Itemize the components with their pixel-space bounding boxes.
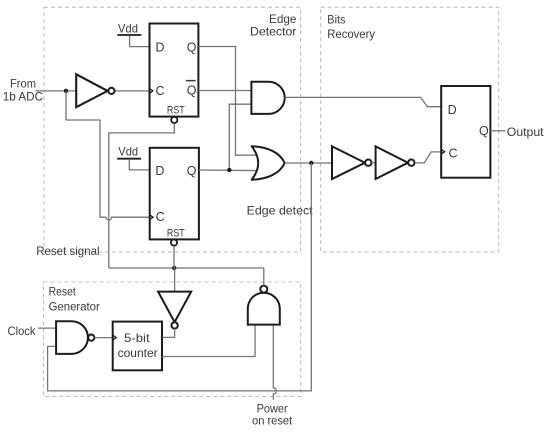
svg-text:Q: Q [479, 124, 489, 138]
label From 1b ADC [3, 77, 44, 104]
flip-flop U2 (FF1) [150, 24, 199, 124]
wire: input branch down to FF2 C (with hop over reset wire) [66, 91, 150, 220]
wire: Vdd to FF1 D [130, 36, 150, 47]
node: junction dot on FF2 Q wire [227, 168, 231, 172]
node: input junction dot [64, 89, 68, 93]
svg-text:D: D [448, 103, 457, 117]
svg-text:Recovery: Recovery [327, 27, 375, 41]
node: edge detect junction dot [309, 161, 313, 165]
wire: FF4 Q to Output [490, 130, 505, 132]
svg-text:C: C [449, 146, 458, 160]
svg-text:on reset: on reset [252, 414, 293, 428]
wire: AND output to FF4 D (diagonal jog) [285, 97, 442, 106]
wire: Clock input to NAND U10 [38, 327, 56, 329]
wire: FF2 Q to OR gate bottom input [199, 169, 256, 172]
wire: counter output to NAND U12 input [162, 325, 255, 357]
label Bits Recovery [327, 13, 375, 41]
region box: Edge Detector [44, 7, 301, 252]
svg-text:5-bit: 5-bit [124, 331, 150, 345]
wire: U8 output to counter reset [162, 329, 174, 338]
svg-text:Q: Q [187, 41, 197, 55]
svg-text:Vdd: Vdd [118, 21, 138, 35]
svg-text:D: D [156, 41, 165, 55]
svg-text:Output: Output [507, 125, 544, 139]
and gate U4 [251, 82, 284, 114]
wire: Vdd to FF2 D [129, 160, 149, 170]
wire: FF1 Q to OR gate top input [198, 47, 256, 156]
svg-text:counter: counter [118, 346, 158, 360]
svg-text:Detector: Detector [250, 25, 296, 39]
wire: FF1 RST to reset rail [109, 124, 175, 268]
region box: Reset Generator [44, 282, 301, 396]
label Reset Generator [49, 285, 100, 314]
node: reset rail junction dot [172, 266, 176, 270]
power symbol Vdd (FF1) [117, 21, 141, 35]
wire: U6 to U7 [372, 162, 376, 164]
region box: Bits Recovery [321, 7, 499, 252]
wire: reset rail horizontal [109, 267, 264, 269]
svg-text:RST: RST [167, 228, 185, 240]
inverter U1 [76, 74, 114, 107]
wire: U1 output to FF1 C [115, 90, 150, 92]
wire: reset rail down to inverter U8 input [174, 268, 176, 292]
label Edge Detector [250, 12, 297, 39]
svg-text:RST: RST [167, 104, 185, 116]
nand gate U10 (clock) [56, 321, 94, 354]
flip-flop U9 (output FF) [441, 86, 490, 178]
wire: U7 output to FF4 C (diagonal jog) [415, 152, 442, 163]
svg-text:C: C [156, 84, 165, 98]
inverter U8 (pointing down) [158, 292, 191, 329]
nand gate U12 (power on reset, pointing up) [248, 286, 280, 325]
counter U11 (5-bit counter) [113, 322, 162, 371]
wire: power-on-reset input (with hop over feedback wire) [273, 325, 276, 400]
svg-text:Generator: Generator [49, 300, 100, 314]
wire: reset rail up to FF2 RST bubble [173, 246, 175, 268]
or gate U5 [252, 146, 285, 179]
power symbol Vdd (FF2) [117, 144, 141, 158]
svg-text:D: D [155, 164, 164, 178]
flip-flop U3 (FF2) [150, 148, 199, 246]
wire: U10 output to counter clock [94, 337, 112, 339]
svg-text:Reset: Reset [49, 285, 77, 299]
label Power on reset [252, 401, 293, 427]
wire: OR output to inverter U6 [285, 162, 332, 164]
wire: U12 output up to reset rail [263, 268, 265, 286]
wire: feedback from edge detect to clock NAND input [48, 163, 312, 391]
svg-text:C: C [156, 210, 165, 224]
inverter U6 [332, 146, 371, 179]
svg-text:Reset signal: Reset signal [36, 244, 99, 258]
svg-text:Q: Q [187, 84, 197, 98]
svg-text:Vdd: Vdd [118, 144, 138, 158]
svg-text:Clock: Clock [8, 324, 37, 338]
inverter U7 [376, 146, 415, 179]
wire: FF2 Q junction up to AND gate bottom input [229, 104, 251, 170]
svg-text:Q: Q [187, 164, 197, 178]
wire: input from 1b ADC to inverter U1 [36, 90, 77, 92]
wire: FF1 Qbar to AND gate top input [198, 90, 251, 92]
svg-text:Edge detect: Edge detect [247, 203, 314, 217]
svg-text:Bits: Bits [327, 13, 345, 27]
